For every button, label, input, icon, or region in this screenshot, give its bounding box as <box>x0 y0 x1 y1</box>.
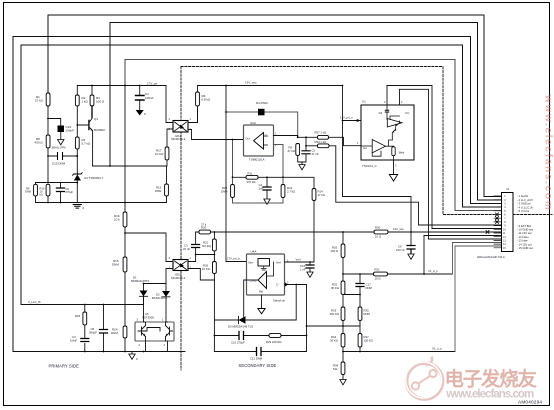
capacitor C1 100nF with gnd <box>139 86 141 110</box>
resistor R17 10k <box>165 147 169 160</box>
U4A Comp wire down to D3 rail <box>244 280 247 320</box>
capacitor C3 22nF <box>188 232 196 262</box>
wire L3 net GND-pri: bottom rail to J1 pin3 <box>13 37 502 352</box>
wire U2A +in from node137 <box>274 136 298 138</box>
resistor R34 30k + R37 100k <box>341 334 345 348</box>
zener U3 TS69354.7 <box>76 149 78 203</box>
resistor R11 370k horizontal <box>246 175 258 179</box>
transistor Q1 BC850 <box>89 106 92 130</box>
resistor R3 100 (Q1 coll) <box>91 86 93 96</box>
resistor R8 430 <box>46 135 50 148</box>
U1 internal resistor Bled <box>392 147 395 156</box>
capacitor C11 DNM <box>257 348 262 356</box>
resistor R23 DNM <box>231 185 235 198</box>
U1 transistor <box>392 121 399 140</box>
isolation boundary dashed vertical primary/secondary <box>180 67 182 371</box>
wire top row y182.5 <box>36 183 78 189</box>
J1 pin numbers <box>503 195 506 250</box>
resistor R94 1k horizontal <box>318 144 330 148</box>
resistor R1 27k <box>46 93 50 106</box>
wire V_LLC_fb rail y304.5 <box>21 304 144 306</box>
node label 17V_pri_s <box>357 119 360 121</box>
wire node 137 to R97/C2 <box>298 137 318 150</box>
resistor R16 10k <box>123 212 127 227</box>
capacitor C19 100nF (block) <box>58 126 65 133</box>
wire Q1 base row y125 <box>77 106 89 137</box>
wire V1_d_p rail y274 <box>343 273 453 275</box>
resistor R29 160 horizontal <box>269 334 281 338</box>
wire 13Vsec rail y232 <box>196 231 502 233</box>
capacitor C10 270uF <box>239 332 244 340</box>
capacitor C16 1nF with gnd <box>309 262 311 272</box>
resistor R38 51k bottom <box>341 362 345 375</box>
wire R94 right down x335.8 to EXT-BIAS row <box>329 146 502 225</box>
wire V1_u_p rail y351.5 <box>343 351 455 353</box>
U4A internal amp <box>258 272 267 289</box>
transistor array U5 NST3906 <box>135 322 174 341</box>
ground arrow (R9/C2) <box>299 165 305 170</box>
wire R97 to U1 Gd pin <box>329 137 362 145</box>
wire L1 net AuxW: R1 top to J1 pin1 <box>48 15 502 197</box>
resistor R19 DNM <box>125 166 167 203</box>
resistor R6 6.8k <box>196 92 200 106</box>
U4A C- wire to ladder <box>285 285 344 352</box>
wire x226 branch down to U4A <box>226 86 247 262</box>
wire U2A out branch down x232.5 <box>232 140 234 178</box>
U1 pin2 wire up to rail <box>387 86 502 229</box>
resistor R9 DNM <box>34 184 38 196</box>
wire L4 net V_LLC_fb: rail304 to J1 pin4 <box>21 45 502 305</box>
net arrow BIAS_PRI <box>60 132 62 139</box>
ground arrow bottom pri <box>131 352 133 355</box>
resistor R9 47k (node to gnd) <box>298 144 306 165</box>
wire GD1 pin1 to R4s <box>188 108 198 123</box>
svg-text:www.elecfans.com: www.elecfans.com <box>445 389 534 401</box>
U4A Vref wire right <box>285 200 315 262</box>
capacitor C6 270uF <box>57 188 65 192</box>
ladder backbone x343 <box>342 232 344 379</box>
logo circle <box>406 357 443 400</box>
wire D3 rail y320 <box>214 285 296 321</box>
wire GND rail y202.5 <box>36 202 126 204</box>
diode D4 DNM (block) <box>258 109 265 116</box>
wire GD1 pin2 to U2A out <box>188 130 244 140</box>
wire D4 row y112 <box>226 112 298 137</box>
J1 unconnected pin x marks <box>486 213 499 234</box>
capacitor C4 1nF with gnd <box>266 177 268 198</box>
J1 right-side net labels <box>517 194 534 250</box>
wire R1 node branch to C19 <box>48 119 61 126</box>
wire L5 net V-Core: x125 column to J1 pin5 <box>125 60 502 211</box>
resistor R21 NOEQ <box>213 239 217 251</box>
U5 pins to rail <box>144 322 168 352</box>
wire R11 row y177 <box>233 177 315 188</box>
wire 17Vpri drop to GD1 <box>166 86 173 123</box>
resistor R97 1k horizontal <box>318 135 329 139</box>
diode D3 MMSD4148T1G <box>239 316 246 323</box>
resistor R24 DNM <box>123 326 127 338</box>
wire C2 node to R94 <box>306 145 318 147</box>
resistor R22 2.7k <box>281 185 285 198</box>
capacitor C9 100nF with gnd <box>407 246 415 254</box>
resistor R30 10R horizontal (in rail) <box>374 230 388 234</box>
wire primary bottom rail y351.5 <box>13 351 185 353</box>
ground bars pri <box>73 205 81 209</box>
isolation boundary dashed top and right to J1 <box>181 67 494 215</box>
diode D2 BAS21SLT1 <box>144 284 171 323</box>
U5 internal transistors <box>138 322 146 341</box>
optocoupler GD2 SFH6156-2 <box>173 260 188 271</box>
capacitor C8 360uF <box>103 305 105 352</box>
capacitor C2 47nF <box>302 151 310 154</box>
optocoupler GD1 SFH6156-2 <box>173 121 188 133</box>
U1 amp1 triangle <box>387 119 402 128</box>
resistor R26b 10k <box>213 262 217 274</box>
dashed isolation through connector to page edge <box>513 214 552 216</box>
wires pins 12-15 from rails <box>424 236 502 275</box>
op-amp U2A TS9101 <box>244 125 274 156</box>
resistor R4 5.7k (emitter leg) <box>75 137 79 149</box>
resistor R26 160k <box>341 244 345 258</box>
resistor R15 DNM <box>123 257 127 272</box>
wire GD2 pin4/pin3 left <box>166 262 173 284</box>
J1 pin stubs <box>494 196 502 248</box>
wire x342.5 13V to Vin/C9 <box>343 86 412 246</box>
resistor R32 30k + C17 DNM <box>341 281 345 295</box>
resistor R10 10k <box>46 184 50 196</box>
capacitor C4b 6.8nF <box>81 339 89 342</box>
resistor R33 160k + R35 DNM <box>341 307 345 321</box>
capacitor C15 DNM horizontal <box>48 155 77 157</box>
wire 17V_pri rail y85.5 <box>77 85 166 87</box>
resistor R25 <box>83 312 87 325</box>
wire R1 column x48 <box>47 106 49 183</box>
capacitor C17 DNM <box>343 274 360 295</box>
wire C10 rail y335.5 <box>214 335 306 337</box>
wire C11 rail y351.5 <box>214 351 306 353</box>
U1 pin3 gnd <box>393 160 395 174</box>
svg-text:www.elecfans.com: www.elecfans.com <box>543 94 554 211</box>
resistor R14 47k <box>312 189 316 201</box>
U1 amp2 triangle <box>372 140 385 153</box>
U1 internals: Vid bar + amp1 <box>385 110 388 112</box>
resistor R2 1k (Q1 base) <box>76 86 78 96</box>
U1 pin4 wire up/right <box>400 89 502 239</box>
wire x125 column (V-Core bias) <box>124 86 126 352</box>
wire R16 tap to x166 down to GD2 <box>125 233 166 262</box>
U4A internal ref box <box>258 259 270 267</box>
wire L2 net LLC_AUX: x110 to J1 pin2 <box>110 23 502 201</box>
ground arrow ladder <box>340 380 346 385</box>
U4A ref pin down arrow <box>261 295 263 309</box>
wire 13V_sec rail y85.5 <box>198 86 343 93</box>
wire U2A -in gray loop via R22 <box>233 145 284 204</box>
wire GD1 pin3 to R17 <box>167 129 173 147</box>
resistor R20 27k horizontal <box>199 230 211 234</box>
wire emitter row y166 <box>93 160 167 166</box>
resistor R31 10R horizontal <box>374 272 388 276</box>
diode D1 MMSD4148T3 <box>140 284 148 305</box>
